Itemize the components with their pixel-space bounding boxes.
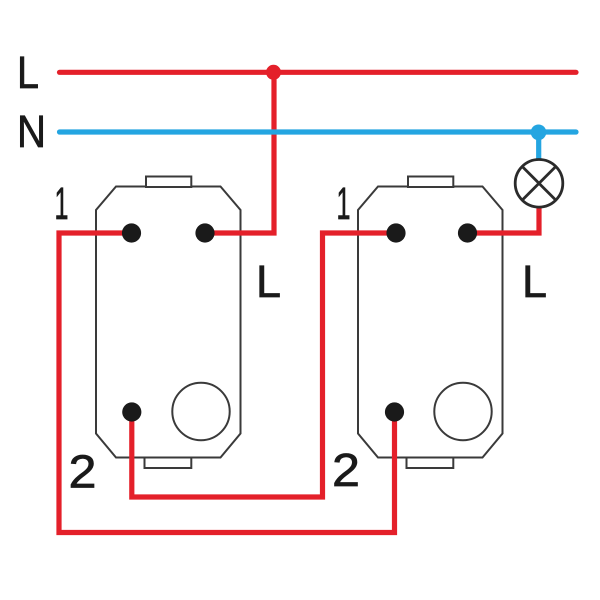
node junction on L line: [266, 65, 281, 80]
wire from switch S1 terminal 2 down, right, up to switch S2 terminal 1: [132, 233, 396, 497]
svg-text:1: 1: [55, 178, 69, 229]
svg-text:2: 2: [332, 444, 360, 496]
wire L line (phase): [60, 70, 577, 75]
wire from lamp bottom to switch S2 terminal L: [468, 204, 540, 233]
svg-text:L: L: [256, 256, 281, 307]
svg-text:L: L: [522, 256, 547, 307]
switch S2 actuator circle: [434, 383, 491, 440]
switch S1 body: [96, 177, 241, 469]
wire N line (neutral): [60, 129, 577, 134]
wire from switch S1 terminal 1 left, down, across bottom, up to switch S2 terminal 2: [59, 233, 395, 533]
switch S2 terminal 1: [386, 223, 405, 242]
svg-text:1: 1: [337, 178, 351, 229]
switch S2 terminal L: [458, 223, 477, 242]
svg-text:L: L: [17, 47, 39, 98]
switch S1 terminal 1: [122, 223, 141, 242]
switch S2 body: [358, 177, 503, 469]
wire from N line down to lamp top: [536, 132, 541, 160]
switch S2 terminal 2: [385, 402, 404, 421]
switch S1 terminal L: [195, 223, 214, 242]
lamp E1: [515, 160, 563, 208]
svg-text:2: 2: [69, 446, 97, 498]
switch S1 terminal 2: [122, 402, 141, 421]
svg-text:N: N: [17, 106, 46, 157]
node junction on N line: [531, 125, 547, 141]
wire from L line down to switch S1 terminal L: [205, 72, 274, 233]
switch S1 actuator circle: [172, 383, 229, 440]
